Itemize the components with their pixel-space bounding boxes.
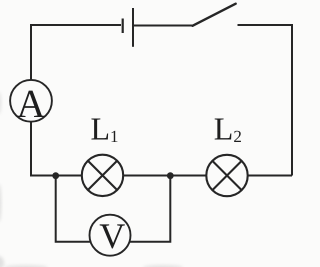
lamp L1: cross [88,161,117,190]
scan smudge left edge upper [0,92,1,114]
scan smudge left edge lower [0,184,1,222]
svg-text:L2: L2 [214,111,242,147]
wire: battery to switch pivot [134,25,193,27]
scan smudge bottom-left corner [0,256,4,267]
wire: left vertical (ammeter down to bottom wire) [31,122,81,176]
lamp L1: circle [82,155,123,196]
wire: voltmeter branch right (down from right dot, left to V) [128,176,170,242]
wire: left vertical (top corner down to ammeter) [30,24,32,80]
scan smudge bottom edge left [4,265,48,267]
node: left junction dot [52,172,59,179]
ammeter A: circle [10,80,52,122]
wire: switch right contact to top-right corner [238,25,293,176]
wire: L2 to bottom-right corner [248,175,293,177]
lamp L2: circle [206,155,247,196]
voltmeter V: circle [90,215,131,256]
battery cell: long positive plate [132,8,134,47]
svg-text:A: A [17,81,46,126]
lamp L2: cross [213,161,242,190]
wire: top-left horizontal from left corner to battery [31,24,121,26]
wire: voltmeter branch left (down from left dot, right to V) [56,176,92,242]
battery cell: short negative plate [122,19,124,34]
svg-text:V: V [99,216,125,256]
switch: open blade [193,4,236,26]
node: right junction dot [167,172,174,179]
svg-text:L1: L1 [91,111,119,147]
wire: bottom between L1 and L2 (through right dot) [123,175,206,177]
scan smudge bottom edge [143,265,183,267]
